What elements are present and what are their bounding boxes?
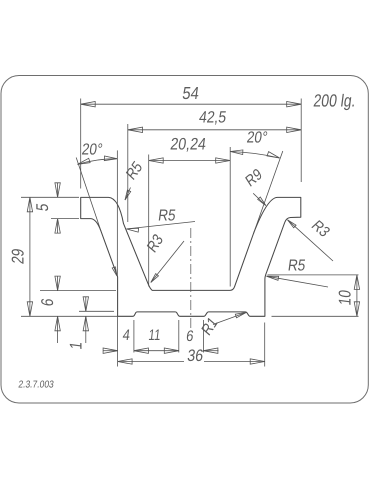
- extension line relief depth (y=311.3): [79, 310, 114, 312]
- arrowhead at bottom of left 20 deg line: [112, 267, 117, 276]
- leader R3 (V bottom fillet): [151, 241, 184, 283]
- drawing sheet border: [1, 76, 368, 404]
- svg-text:R5: R5: [157, 206, 177, 224]
- dimension 6 (bottom): [203, 350, 218, 352]
- svg-text:200 lg.: 200 lg.: [312, 92, 356, 111]
- extension line right step corner (y=274.9): [268, 274, 359, 276]
- svg-text:11: 11: [148, 326, 162, 343]
- extension line flange bottom (y=218.6): [51, 218, 79, 220]
- dimension 1 (relief depth): [85, 297, 87, 311]
- dimension 11 (bottom): [134, 350, 179, 352]
- dimension 54 (overall width): [81, 103, 302, 105]
- extension line 20,24 right (x=230.2): [229, 147, 231, 287]
- extension line x=133.9 (dim 4/11): [133, 320, 135, 353]
- svg-text:20°: 20°: [81, 141, 104, 159]
- dimension 5 (flange thickness): [57, 183, 59, 197]
- vertical reference line for left 20 deg angle: [116, 150, 118, 276]
- extension line 20,24 left (x=148.7): [148, 155, 150, 287]
- extension line 42,5 left (x=127.8): [127, 124, 129, 222]
- svg-text:R5: R5: [287, 257, 307, 275]
- svg-text:54: 54: [181, 84, 200, 103]
- extension line part bottom right (y=316.3): [272, 315, 359, 317]
- svg-text:20,24: 20,24: [169, 136, 207, 154]
- svg-text:2.3.7.003: 2.3.7.003: [18, 379, 55, 390]
- leader R3 (right notch fillet): [288, 220, 334, 261]
- extension line 54/42,5 right (x=301.2): [300, 99, 302, 183]
- extension line x=203.4 (dim 6): [202, 320, 204, 353]
- leader R1 (bottom relief ramp): [213, 312, 246, 324]
- extension line groove floor level (y=290.6): [40, 290, 116, 292]
- angular dimension 20 deg (right groove wall): [230, 152, 279, 159]
- leader R9 (right groove fillet): [253, 193, 266, 205]
- leader R5 (right lower corner): [267, 276, 329, 287]
- extension line bottom flange left edge down (x=117.6): [117, 316, 119, 366]
- extension line x=178.8 (dim 11/6): [178, 320, 180, 353]
- extension line 54 left (x=80.7): [80, 99, 82, 189]
- left 20 deg slant extension line: [76, 158, 101, 231]
- svg-text:29: 29: [9, 248, 28, 265]
- vertical centerline (dash-dot): [190, 228, 192, 331]
- dimension 42,5: [128, 129, 301, 131]
- leader R5 (top left fillet, rotated label): [125, 188, 131, 201]
- svg-text:42,5: 42,5: [198, 108, 228, 126]
- profile outline: V-die cross-section: [81, 197, 301, 316]
- dimension 10 (right step height): [356, 275, 358, 316]
- svg-text:10: 10: [336, 289, 355, 306]
- dimension 20,24 (groove bottom width): [149, 160, 231, 162]
- svg-text:36: 36: [186, 347, 204, 365]
- right 20 deg slant extension line (groove wall extended): [254, 151, 283, 234]
- dimension 4 (bottom): [103, 350, 118, 352]
- svg-text:20°: 20°: [246, 128, 269, 146]
- dimension 36 (bottom flange width): [118, 361, 184, 363]
- extension line top surface level (y=197.3): [21, 196, 79, 198]
- extension line part bottom left (y=316.3): [21, 315, 118, 317]
- leader R5 (left wall, horizontal label): [127, 222, 196, 229]
- dimension 29 (overall height, left): [29, 197, 31, 316]
- dimension 6 (floor height, left): [57, 277, 59, 291]
- extension line 36 right (x=264.7): [264, 323, 266, 367]
- angular dimension 20 deg (left groove wall): [78, 159, 117, 165]
